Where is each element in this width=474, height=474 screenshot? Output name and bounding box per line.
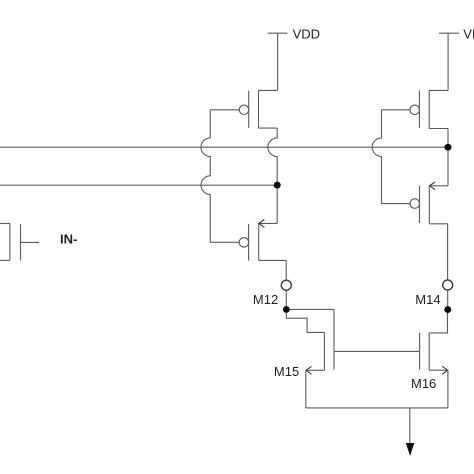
wire M12 drain down (285, 260, 287, 280)
wire M15 drain staircase (286, 309, 324, 332)
node dot A (M12 out) (283, 306, 290, 313)
op PMOS M13 (right top) (419, 90, 448, 128)
node pin circle (right) (443, 280, 453, 290)
cascode PMOS M12 (left) (249, 223, 287, 260)
wire M14 gate lead (382, 203, 411, 205)
wire gate net left vertical with hops (201, 110, 210, 243)
wire M13 gate lead (382, 109, 411, 111)
svg-text:IN-: IN- (60, 231, 77, 246)
wire M15 gate vertical (333, 309, 335, 369)
gate bubble M12 (239, 238, 249, 248)
arrow M14 source (430, 182, 436, 190)
wire node A to M15 gate (286, 308, 334, 310)
node pin circle (left) (281, 280, 291, 290)
node dot net2/M11 drain (274, 182, 281, 189)
wire output stub (409, 408, 411, 443)
svg-text:M12: M12 (253, 292, 278, 307)
wire M16 drain from node B (429, 310, 447, 333)
svg-text:M16: M16 (411, 376, 436, 391)
wire M13 drain to net1 and cascode (447, 129, 449, 186)
svg-text:M14: M14 (415, 292, 440, 307)
arrow M15 source (306, 366, 312, 374)
svg-text:VDD: VDD (463, 26, 474, 41)
wire gate interconnect M15-M16 (334, 350, 420, 352)
cascode PMOS M14 (right) (420, 186, 449, 224)
transistor M16 (NMOS, gate left) (420, 333, 448, 370)
VDD symbol (right) (439, 33, 459, 90)
gate bubble M14 (410, 199, 420, 209)
wire M12 gate lead (210, 241, 239, 243)
wire M14 drain down (447, 224, 449, 280)
op PMOS M11 (center top) (249, 90, 278, 128)
arrow M12 source (259, 220, 265, 228)
output arrowhead (406, 443, 415, 456)
transistor M-IN (cropped input device at left edge) (0, 224, 39, 261)
node dot net1/M13 drain (445, 144, 452, 151)
transistor M15 (NMOS mirror, gate right) (306, 332, 324, 370)
gate bubble M13 (410, 105, 420, 115)
arrow M16 source (442, 366, 448, 374)
wire M11 gate lead (210, 109, 239, 111)
wire bottom rail (306, 407, 448, 409)
VDD symbol (center) (268, 33, 288, 90)
wire net2 (lower horizontal rail) (0, 184, 277, 186)
wire M11 drain down with hop to net2 (268, 128, 277, 223)
gate bubble M11 (239, 105, 249, 115)
node dot B (M14 out) (444, 306, 451, 313)
wire M16 source down (447, 370, 449, 408)
svg-text:VDD: VDD (293, 26, 320, 41)
wire pin to node M14 (447, 290, 449, 310)
wire net1 (upper horizontal rail) (0, 146, 448, 148)
wire pin to node M12 (285, 290, 287, 309)
wire M15 source down (305, 370, 307, 408)
svg-text:M15: M15 (274, 364, 299, 379)
wire gate net right vertical with hop (372, 110, 381, 204)
